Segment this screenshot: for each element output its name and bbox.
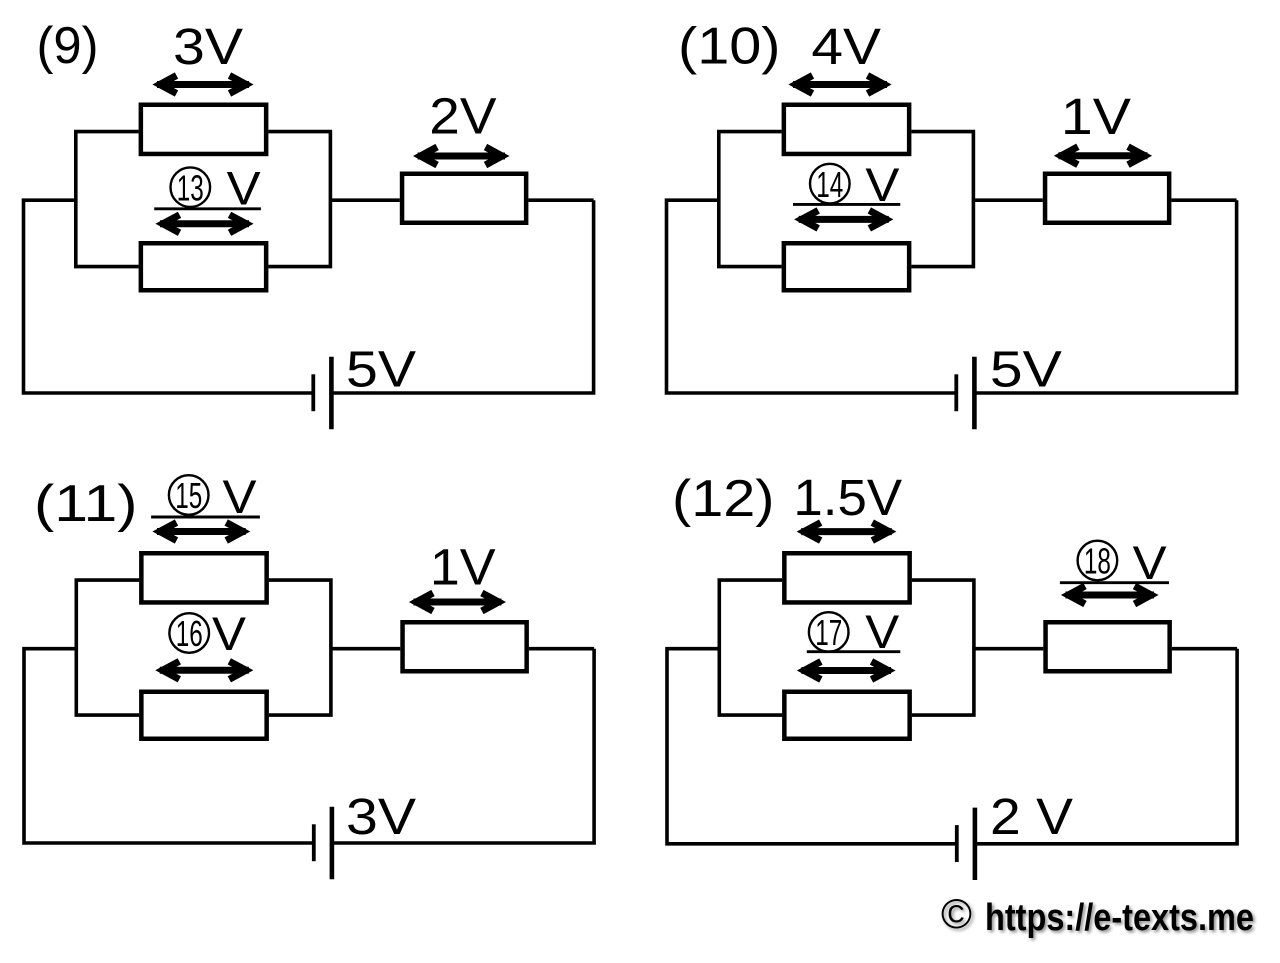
svg-text:V: V: [227, 162, 262, 215]
svg-text:18: 18: [1084, 541, 1111, 582]
svg-text:5V: 5V: [346, 341, 416, 398]
svg-text:(9): (9): [37, 17, 99, 75]
svg-text:14: 14: [816, 164, 843, 205]
svg-text:(12): (12): [672, 470, 775, 528]
svg-text:2V: 2V: [429, 87, 496, 144]
svg-text:©: ©: [941, 890, 972, 937]
svg-text:15: 15: [175, 475, 202, 516]
svg-text:1V: 1V: [1061, 88, 1131, 145]
svg-text:16: 16: [176, 613, 203, 654]
svg-text:(11): (11): [34, 475, 138, 533]
svg-text:V: V: [223, 470, 258, 523]
svg-text:(10): (10): [678, 18, 781, 76]
svg-text:V: V: [865, 605, 900, 658]
svg-text:V: V: [212, 607, 247, 660]
svg-text:17: 17: [815, 612, 842, 653]
svg-text:1V: 1V: [430, 539, 496, 596]
svg-text:https://e-texts.me: https://e-texts.me: [985, 897, 1254, 939]
svg-text:3V: 3V: [173, 18, 243, 75]
svg-text:2 V: 2 V: [990, 788, 1073, 845]
svg-text:3V: 3V: [346, 788, 416, 845]
svg-text:4V: 4V: [811, 18, 881, 75]
svg-text:13: 13: [177, 167, 204, 208]
svg-text:1.5V: 1.5V: [793, 469, 902, 526]
svg-text:5V: 5V: [990, 341, 1062, 398]
svg-text:V: V: [1133, 536, 1168, 589]
